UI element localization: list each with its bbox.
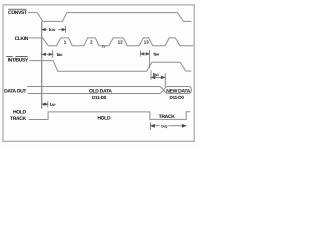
dimension t1 (CONVST fall to BUSY fall) (42, 50, 53, 58)
border frame (3, 5, 194, 141)
wire HOLD/TRACK waveform (28, 112, 190, 120)
dimension t2 (CLK13 rise to BUSY rise) (140, 50, 149, 68)
svg-text:D11-D0: D11-D0 (170, 95, 185, 100)
svg-text:tBD: tBD (153, 72, 160, 77)
svg-text:TRACK: TRACK (10, 116, 26, 122)
svg-text:HOLD: HOLD (97, 116, 111, 122)
dimension tCW (42, 26, 66, 33)
dimension t3 (BUSY rise to new data) (151, 70, 165, 87)
wire CLKIN waveform (29, 38, 194, 46)
dimension reference line from CONVST fall (41, 21, 43, 108)
svg-text:DATA OUT: DATA OUT (4, 89, 26, 95)
dimension tAP (CONVST fall to hold) (42, 102, 48, 108)
bus OLD DATA (27, 87, 164, 94)
svg-text:tBH: tBH (153, 52, 160, 57)
svg-text:12: 12 (118, 39, 123, 44)
svg-text:13: 13 (144, 39, 149, 44)
svg-text:tCW: tCW (49, 27, 57, 32)
svg-text:CONVST: CONVST (8, 10, 27, 16)
svg-text:tAQ: tAQ (161, 123, 168, 128)
svg-text:CLKIN: CLKIN (15, 36, 29, 42)
svg-text:TRACK: TRACK (159, 114, 176, 120)
svg-text:D11-D0: D11-D0 (92, 95, 107, 100)
svg-text:HOLD: HOLD (13, 110, 26, 116)
svg-text:INT/BUSY: INT/BUSY (8, 57, 29, 63)
label CONVST (8, 9, 27, 16)
label INT/BUSY (6, 57, 29, 64)
wire INT/BUSY waveform (29, 61, 191, 72)
svg-text:OLD DATA: OLD DATA (89, 88, 112, 94)
svg-text:NEW DATA: NEW DATA (166, 88, 190, 94)
svg-text:tBD: tBD (57, 52, 64, 57)
break squiggle on CLKIN low (102, 45, 105, 48)
wire CONVST waveform (28, 13, 191, 22)
dimension tAQ (acquisition) (150, 123, 186, 131)
bus NEW DATA (164, 87, 192, 94)
